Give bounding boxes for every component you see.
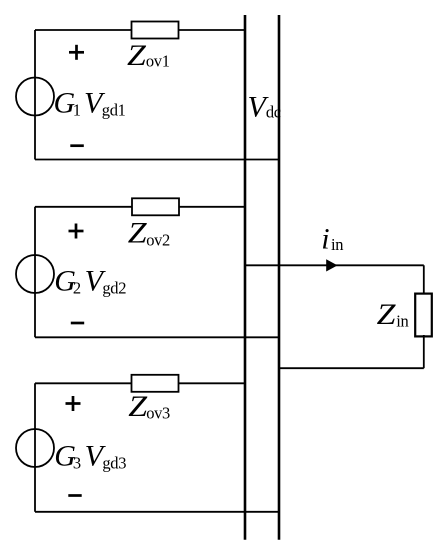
resistor Zov2 <box>132 198 179 215</box>
minus loop3 <box>68 494 81 497</box>
svg-text:2: 2 <box>73 279 81 298</box>
DC bus positive rail <box>244 15 247 540</box>
svg-text:in: in <box>331 235 343 254</box>
source G2 circle <box>16 255 54 293</box>
wire loop3 bottom <box>35 511 279 513</box>
wire loop1 bottom <box>35 159 279 161</box>
plus loop1 <box>69 45 84 60</box>
wire loop1 left <box>34 30 36 160</box>
minus loop1 <box>70 144 84 147</box>
source G1 circle <box>16 78 54 116</box>
wire input bottom <box>279 367 424 369</box>
current arrow iin <box>326 259 337 271</box>
plus loop3 <box>66 396 81 411</box>
svg-text:in: in <box>396 311 408 330</box>
resistor Zov1 <box>132 22 179 39</box>
svg-text:ov2: ov2 <box>146 230 170 249</box>
svg-text:Z: Z <box>127 38 147 72</box>
svg-text:ov1: ov1 <box>146 52 170 71</box>
wire loop2 top <box>35 206 245 208</box>
wire input right upper <box>423 265 425 295</box>
resistor Zov3 <box>132 375 179 392</box>
svg-text:gd2: gd2 <box>102 279 126 298</box>
svg-text:1: 1 <box>73 100 81 119</box>
svg-text:dc: dc <box>266 103 281 122</box>
plus loop2 <box>69 224 84 239</box>
svg-text:gd1: gd1 <box>102 100 126 119</box>
svg-text:3: 3 <box>73 453 81 472</box>
source G3 circle <box>16 429 54 467</box>
svg-text:Z: Z <box>377 297 397 331</box>
impedance Zin <box>415 294 432 337</box>
wire input right lower <box>423 335 425 368</box>
wire loop2 bottom <box>35 336 279 338</box>
DC bus negative rail <box>278 15 281 540</box>
wire loop3 left <box>34 383 36 512</box>
wire input top <box>245 264 424 266</box>
svg-text:i: i <box>321 222 329 255</box>
wire loop3 top <box>35 382 245 384</box>
wire loop2 left <box>34 207 36 337</box>
svg-text:Z: Z <box>128 215 148 249</box>
svg-text:gd3: gd3 <box>102 453 126 472</box>
minus loop2 <box>71 322 84 325</box>
svg-text:ov3: ov3 <box>146 403 170 422</box>
wire loop1 top <box>35 29 245 31</box>
